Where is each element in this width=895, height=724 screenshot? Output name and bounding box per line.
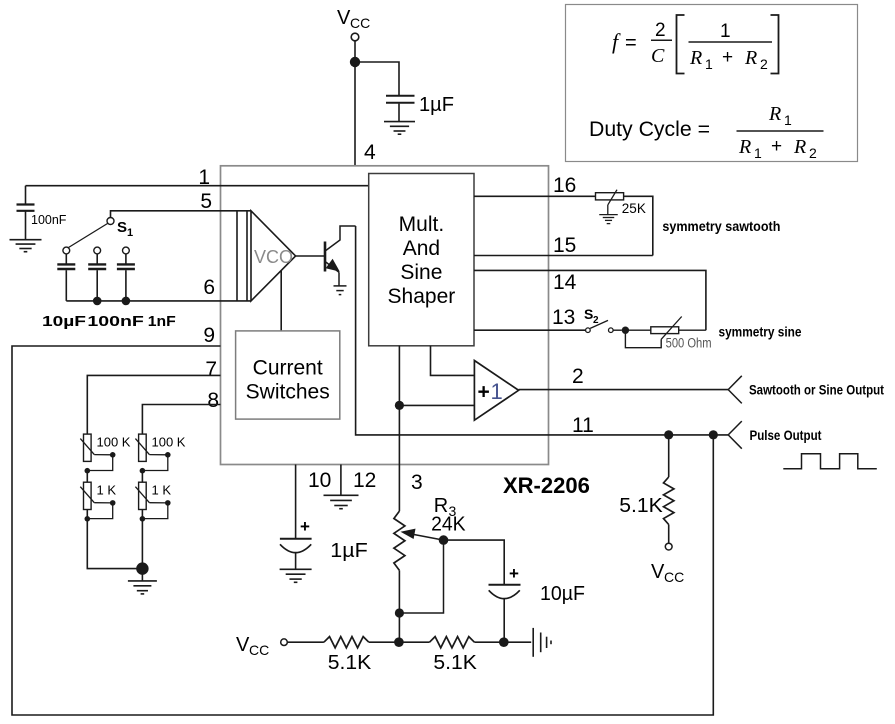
svg-text:And: And xyxy=(403,237,440,260)
block Mult And Sine Shaper xyxy=(369,174,474,346)
svg-text:500 Ohm: 500 Ohm xyxy=(666,336,712,351)
label S1 xyxy=(117,219,133,239)
resistor 5.1K left xyxy=(324,637,369,648)
label Vcc pull-up xyxy=(651,561,684,585)
wire pin 7 xyxy=(87,375,220,434)
junction center rail xyxy=(394,637,404,647)
IC XR-2206 outline U1 xyxy=(221,166,549,465)
wire Vcc to first 5.1K xyxy=(287,641,324,643)
svg-text:Current: Current xyxy=(253,357,323,380)
wire pin 16 xyxy=(474,195,596,197)
svg-text:2: 2 xyxy=(572,365,584,388)
wire pin 11 output xyxy=(549,434,729,436)
potentiometer R3 24K xyxy=(394,511,405,570)
op-amp buffer +1 xyxy=(474,361,518,421)
potentiometer 100K (left, pin 7) xyxy=(84,434,92,461)
svg-text:25K: 25K xyxy=(622,201,646,216)
wire R3 bottom to rail xyxy=(398,570,400,642)
svg-text:V: V xyxy=(337,7,351,29)
wire R3 wiper loop xyxy=(399,540,443,613)
svg-text:1: 1 xyxy=(754,145,762,161)
svg-text:1 K: 1 K xyxy=(152,483,172,498)
svg-text:+: + xyxy=(478,381,490,404)
svg-text:1: 1 xyxy=(127,227,133,239)
terminal Vcc pull-up xyxy=(665,543,672,550)
svg-text:R: R xyxy=(689,47,702,69)
svg-text:1: 1 xyxy=(705,56,713,72)
svg-text:12: 12 xyxy=(353,469,376,492)
junction R3 bottom loop xyxy=(395,608,404,617)
junction pin11 to loop xyxy=(709,430,718,439)
ground pot network xyxy=(128,580,157,582)
svg-text:Sine: Sine xyxy=(400,261,442,284)
wire VCO to current switches xyxy=(280,271,282,331)
label Vcc bottom xyxy=(236,634,269,658)
svg-text:symmetry sine: symmetry sine xyxy=(719,325,802,340)
svg-text:5.1K: 5.1K xyxy=(619,495,663,517)
svg-text:1: 1 xyxy=(491,379,503,404)
junction right rail xyxy=(499,637,509,647)
svg-text:11: 11 xyxy=(572,414,594,437)
svg-text:6: 6 xyxy=(203,276,215,299)
svg-text:+: + xyxy=(722,47,733,68)
svg-text:8: 8 xyxy=(207,389,219,412)
svg-text:symmetry sawtooth: symmetry sawtooth xyxy=(662,219,780,234)
svg-text:16: 16 xyxy=(553,174,576,197)
svg-text:1µF: 1µF xyxy=(330,540,368,562)
svg-text:2: 2 xyxy=(593,315,599,326)
svg-text:4: 4 xyxy=(364,141,376,164)
timing capacitor at x=97.2 xyxy=(88,254,106,301)
potentiometer 1K (left) xyxy=(84,482,92,509)
terminal Vcc top xyxy=(351,33,359,41)
timing capacitor at x=125.9 xyxy=(117,254,135,301)
svg-text:1µF: 1µF xyxy=(419,94,454,116)
wire 500 Ohm wiper loop xyxy=(625,330,661,348)
timing capacitor 10uF terminal xyxy=(63,247,70,254)
svg-text:S: S xyxy=(584,306,593,322)
timing capacitor at x=66.3 xyxy=(57,254,75,301)
resistor 5.1K pull-up xyxy=(664,435,674,543)
svg-text:5.1K: 5.1K xyxy=(328,652,372,674)
junction R3 wiper xyxy=(439,535,449,545)
switch S1 xyxy=(69,218,115,248)
svg-text:R: R xyxy=(793,136,806,158)
svg-text:10: 10 xyxy=(308,469,331,492)
potentiometer 25K xyxy=(596,190,624,215)
label R3 xyxy=(434,495,457,519)
block Current Switches xyxy=(236,331,340,419)
svg-text:R: R xyxy=(744,47,757,69)
wire to center junction xyxy=(369,641,430,643)
svg-text:+: + xyxy=(300,517,310,536)
wire pin 12 to ground xyxy=(340,465,342,495)
wire collector to pin 11 rail xyxy=(356,226,549,435)
svg-text:1: 1 xyxy=(784,112,792,128)
svg-text:100nF: 100nF xyxy=(31,213,67,227)
wire Vcc down to pin 4 xyxy=(354,41,356,166)
formula Duty Cycle = R1/(R1+R2) xyxy=(589,103,824,161)
svg-text:Mult.: Mult. xyxy=(399,213,445,236)
formula f = 2/C [1/(R1+R2)] xyxy=(612,15,779,74)
wire Mult to buffer top input xyxy=(431,346,475,376)
resistor 5.1K right xyxy=(430,637,475,648)
svg-text:15: 15 xyxy=(553,234,576,257)
capacitor 1uF electrolytic xyxy=(280,539,312,569)
svg-text:CC: CC xyxy=(249,642,269,658)
formula box xyxy=(566,5,858,162)
wire pin 13 to S2 xyxy=(474,329,586,331)
transistor Q1 xyxy=(325,226,356,286)
svg-text:13: 13 xyxy=(552,306,575,329)
capacitor 100nF on pin 1 xyxy=(17,186,35,239)
svg-text:S: S xyxy=(117,219,127,236)
svg-text:Shaper: Shaper xyxy=(388,285,456,308)
svg-text:3: 3 xyxy=(411,471,423,494)
wire pin 6 inside vertical pair xyxy=(237,211,247,301)
svg-text:+: + xyxy=(509,564,519,583)
label S2 xyxy=(584,306,599,326)
timing capacitor 100nF terminal xyxy=(94,247,101,254)
svg-text:V: V xyxy=(651,561,665,583)
wire pin 8 xyxy=(142,405,220,435)
wire Mult to junction pin 3 column xyxy=(398,346,400,511)
svg-text:100 K: 100 K xyxy=(97,435,131,450)
wire pin 1 xyxy=(26,185,369,187)
svg-text:2: 2 xyxy=(655,20,666,41)
wire junction to pot xyxy=(625,329,650,331)
wire 25K to pin 15 loop xyxy=(624,196,653,255)
svg-text:R: R xyxy=(768,103,781,125)
svg-text:5: 5 xyxy=(200,190,212,213)
wire pin 14 xyxy=(474,270,706,330)
terminal pulse output xyxy=(728,421,742,449)
pulse waveform symbol xyxy=(783,454,877,469)
svg-text:100nF: 100nF xyxy=(87,314,144,330)
node Vcc (top supply) xyxy=(337,7,370,31)
junction at Vcc branch xyxy=(350,57,360,67)
ground 1uF electrolytic xyxy=(280,568,312,570)
wire VCO output to transistor base xyxy=(296,255,325,257)
terminal sawtooth output xyxy=(728,376,742,404)
terminal Vcc bottom xyxy=(281,639,288,646)
svg-text:CC: CC xyxy=(664,569,684,585)
ground transistor emitter xyxy=(334,286,347,295)
wire pot columns to common ground xyxy=(87,471,142,581)
potentiometer 500 Ohm xyxy=(651,317,682,340)
svg-text:CC: CC xyxy=(350,15,370,31)
svg-text:VCO: VCO xyxy=(254,247,293,267)
timing capacitor 1nF terminal xyxy=(123,247,130,254)
svg-text:9: 9 xyxy=(203,324,215,347)
svg-text:14: 14 xyxy=(553,271,577,294)
wire pin 15 xyxy=(474,255,653,257)
svg-text:1: 1 xyxy=(720,21,731,42)
ground below bypass cap xyxy=(384,121,415,123)
capacitor 1uF bypass xyxy=(386,96,415,121)
capacitor 10uF electrolytic xyxy=(489,585,521,642)
svg-text:24K: 24K xyxy=(431,514,466,536)
wire pin 2 output xyxy=(519,389,729,391)
svg-text:1nF: 1nF xyxy=(148,314,176,330)
svg-text:C: C xyxy=(651,45,665,67)
svg-text:Sawtooth or Sine Output: Sawtooth or Sine Output xyxy=(749,383,884,398)
wire pin 5 to S1 xyxy=(111,211,252,218)
ground right rail (rotated) xyxy=(533,628,551,657)
svg-text:Pulse Output: Pulse Output xyxy=(750,428,822,443)
svg-text:7: 7 xyxy=(205,358,217,381)
svg-text:1 K: 1 K xyxy=(97,483,117,498)
switch S2 xyxy=(586,320,622,332)
op-amp VCO triangle xyxy=(251,211,296,301)
svg-text:Duty Cycle =: Duty Cycle = xyxy=(589,118,710,141)
wire pin 9 and outer feedback loop to pin 11 xyxy=(12,346,713,715)
svg-text:R: R xyxy=(738,136,751,158)
wire Vcc branch to bypass cap xyxy=(355,62,399,95)
wire junction to buffer xyxy=(399,404,474,406)
svg-text:10µF: 10µF xyxy=(42,314,86,330)
potentiometer 100K (right, pin 8) xyxy=(139,434,147,461)
junction pot network ground xyxy=(136,562,148,574)
ground below 100nF xyxy=(10,239,42,241)
junction buffer input xyxy=(395,401,404,410)
svg-text:2: 2 xyxy=(760,56,768,72)
svg-text:100 K: 100 K xyxy=(152,435,186,450)
svg-text:Switches: Switches xyxy=(246,381,330,404)
labels 10uF 100nF 1nF xyxy=(42,314,176,330)
wiper arrow R3 xyxy=(401,529,444,541)
wire pin 6 bus xyxy=(66,300,251,302)
potentiometer 1K (right) xyxy=(139,482,147,509)
junction pin11 to 5.1K xyxy=(664,430,673,439)
wire pin 10 xyxy=(295,465,297,539)
wire 500 Ohm right to pin 14 drop xyxy=(679,329,706,331)
svg-text:5.1K: 5.1K xyxy=(433,652,477,674)
junction on pin6 bus x=97 xyxy=(93,297,102,306)
svg-text:XR-2206: XR-2206 xyxy=(503,473,590,498)
ground 25K wiper xyxy=(599,214,618,216)
svg-text:10µF: 10µF xyxy=(540,583,585,605)
ground pin 12 xyxy=(324,494,359,496)
svg-text:=: = xyxy=(625,32,637,54)
svg-text:V: V xyxy=(236,634,250,656)
junction S2 to 500 Ohm xyxy=(622,327,629,334)
wire wiper to 10uF xyxy=(444,540,505,584)
junction on pin6 bus x=126 xyxy=(122,297,131,306)
svg-text:2: 2 xyxy=(809,145,817,161)
svg-text:+: + xyxy=(771,136,782,157)
wire to right junction xyxy=(474,641,531,643)
